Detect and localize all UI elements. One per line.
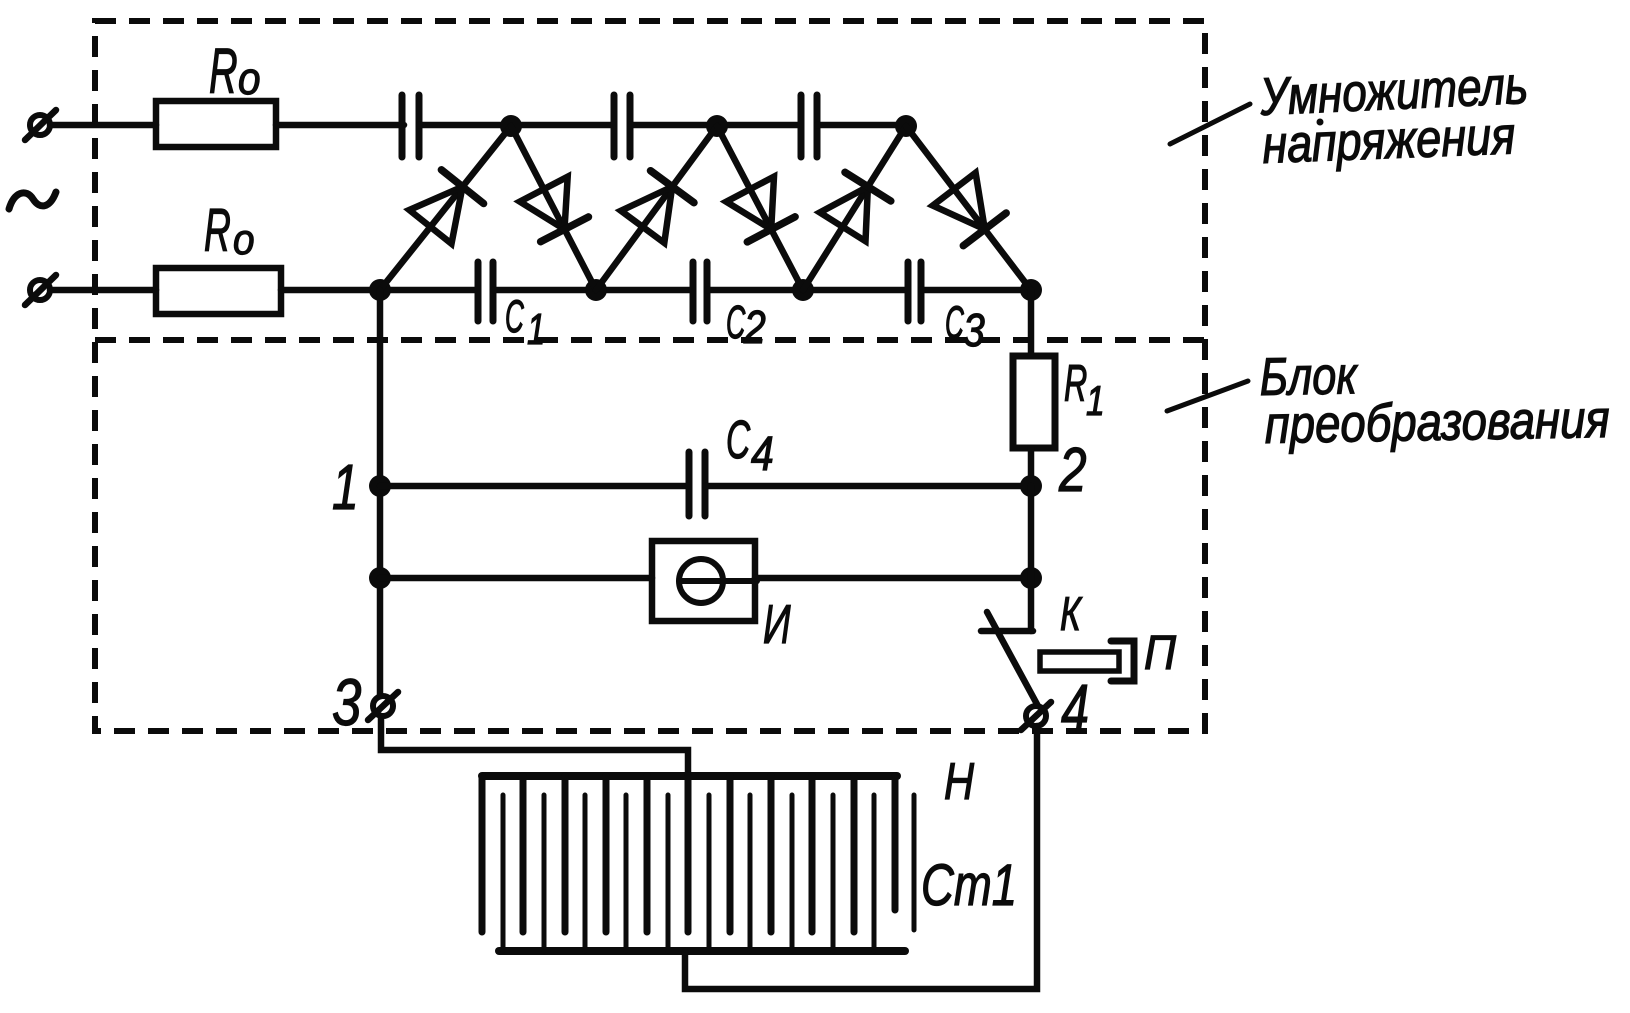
label node 4 [1061,670,1089,748]
label heater H [944,752,975,811]
meter box U (И) [652,541,755,621]
svg-text:o: o [233,215,255,263]
svg-text:1: 1 [1086,379,1105,425]
svg-text:R: R [204,197,231,264]
svg-text:Ст1: Ст1 [921,853,1017,918]
annotation: voltage multiplier [1258,56,1529,127]
meter chord line [679,578,757,584]
wire meter row right [755,575,1031,582]
label C4 [726,409,751,470]
node C [792,279,814,301]
leader line: multiplier label [1170,104,1250,144]
leader line: converter label [1167,381,1248,411]
label node 1 [332,451,359,522]
heater H top bus [482,772,897,780]
label pushbutton P [1144,625,1177,679]
input terminal bottom [30,280,50,300]
heater top comb teeth [482,776,895,932]
node 1 [369,475,391,497]
svg-text:C: C [726,409,751,470]
label R0 top [209,37,238,108]
capacitor C3 [908,262,921,321]
ink speck [1317,119,1324,126]
node A (junction of bottom rail and diode chain) [369,279,391,301]
node 2 [1020,475,1042,497]
svg-text:R: R [209,37,238,108]
pushbutton P bar [1040,652,1119,671]
svg-text:R: R [1064,355,1087,413]
svg-text:3: 3 [332,665,361,739]
diode VD6 [906,126,1031,290]
diode VD5 [803,126,906,290]
capacitor top-1 [402,95,419,157]
svg-text:o: o [238,54,261,104]
wire [707,287,905,294]
svg-text:C: C [945,298,964,348]
wire C4 row left [380,483,689,490]
wire from terminal 3 down and right to heater [381,716,688,773]
node on left rail (meter row) [369,567,391,589]
svg-text:1: 1 [527,306,545,355]
svg-text:3: 3 [963,305,985,357]
wire R1 to node 2 [1028,448,1035,486]
wire [281,287,477,294]
capacitor top-2 [614,95,630,157]
label C1 [505,292,524,342]
svg-text:C: C [726,296,746,347]
left vertical rail [377,290,384,696]
node on right rail (meter row) [1020,567,1042,589]
capacitor C4 [689,452,705,516]
dashed box: multiplier + converter outer border [95,21,1205,731]
wire [817,122,906,129]
resistor R1 [1013,356,1055,448]
svg-text:1: 1 [332,451,359,522]
wire [630,122,801,129]
node top-1 [500,115,522,137]
wire [493,287,693,294]
switch K fixed contact [981,628,1033,635]
wire meter row left [380,575,652,582]
diode VD3 [596,126,717,290]
svg-text:напряжения: напряжения [1261,106,1516,175]
svg-text:К: К [1060,587,1083,640]
label node 3 [332,665,361,739]
wire [276,122,404,129]
switch K lever [987,612,1038,706]
node top-2 [706,115,728,137]
diode VD4 [717,126,803,290]
terminal 4 [1026,706,1046,726]
node top-3 [895,115,917,137]
terminal 3 [373,696,393,716]
label R1 [1064,355,1087,413]
svg-text:И: И [763,594,791,655]
node B [585,279,607,301]
heater bottom comb teeth [503,795,914,951]
label node 2 [1058,435,1086,505]
wire [50,122,156,129]
wire [921,287,1031,294]
label C2 [726,296,746,347]
label meter I [763,594,791,655]
diode VD1 [380,126,511,290]
svg-text:преобразования: преобразования [1264,390,1610,455]
wire terminal 4 down to heater bottom [685,726,1037,989]
capacitor C2 [693,262,707,321]
wire [50,287,156,294]
input terminal top [30,115,50,135]
wire C4 row right [705,483,1031,490]
svg-text:4: 4 [1061,670,1089,748]
svg-text:C: C [505,292,524,342]
svg-text:2: 2 [1058,435,1086,505]
diode VD2 [511,126,596,290]
resistor R0 bottom [156,268,281,314]
resistor R0 top [156,101,276,147]
heater H bottom bus [499,947,905,955]
annotation: conversion block [1259,346,1359,407]
svg-text:2: 2 [743,302,766,354]
wire [419,122,614,129]
wire: output corner down to R1 [1028,290,1035,356]
meter circle [679,559,723,603]
capacitor top-3 [801,95,817,157]
label R0 bottom [204,197,231,264]
label switch K [1060,587,1083,640]
svg-text:Н: Н [944,752,975,811]
pushbutton P bracket [1111,641,1134,681]
capacitor C1 [478,262,493,321]
svg-text:4: 4 [751,428,774,481]
AC source symbol ~ [9,192,56,209]
node D (output corner) [1020,279,1042,301]
dashed separator between blocks [95,337,1205,343]
label C3 [945,298,964,348]
wire right rail down to switch [1028,486,1035,631]
svg-text:П: П [1144,625,1177,679]
